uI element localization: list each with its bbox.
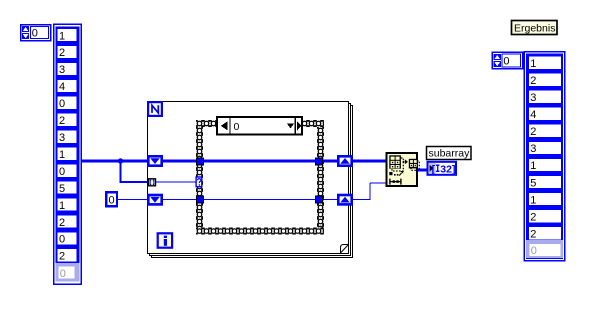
case tunnel lower left xyxy=(196,196,203,203)
wire: lower output to subset length input xyxy=(353,183,386,200)
svg-text:3: 3 xyxy=(59,64,65,76)
svg-text:4: 4 xyxy=(59,81,65,93)
wire: subset node to indicator (thick) xyxy=(418,169,427,172)
case tunnel upper left xyxy=(196,158,203,165)
wire: selector wire to case selector terminal xyxy=(156,181,196,183)
disabled (past end) last element of right array xyxy=(526,240,563,258)
arrow xyxy=(403,161,405,163)
wire: array to left shift register (thick array wire) xyxy=(81,160,147,163)
svg-text:2: 2 xyxy=(530,75,536,87)
big array glyph xyxy=(389,155,401,168)
wire: constant 0 to lower left shift register xyxy=(118,199,148,201)
svg-text:0: 0 xyxy=(32,28,38,40)
svg-text:0: 0 xyxy=(503,56,509,68)
dog-ear at loop bottom-right xyxy=(341,245,349,254)
svg-text:2: 2 xyxy=(59,115,65,127)
svg-text:0: 0 xyxy=(531,245,537,257)
svg-text:1: 1 xyxy=(59,30,65,42)
big array glyph shadow xyxy=(392,158,403,171)
svg-text:2: 2 xyxy=(530,126,536,138)
disabled (unfilled) last element of left array xyxy=(56,263,80,282)
svg-text:5: 5 xyxy=(530,177,536,189)
wire: thick array wire inside loop (right) xyxy=(323,160,337,163)
svg-text:0: 0 xyxy=(109,195,115,207)
length glyph xyxy=(389,179,391,185)
for loop frame (stacked) xyxy=(148,102,353,258)
wire: lower scalar wire inside loop (right) xyxy=(323,199,337,201)
shift register upper right (up arrow) xyxy=(337,155,353,167)
auto-index tunnel [] on loop border xyxy=(149,179,156,186)
case selector terminal ? xyxy=(196,177,202,187)
wire: thick array wire through case xyxy=(204,160,315,163)
svg-text:2: 2 xyxy=(59,47,65,59)
svg-text:1: 1 xyxy=(59,200,65,212)
case tunnel lower right xyxy=(315,196,322,203)
svg-text:2: 2 xyxy=(530,228,536,240)
shift register lower left (down arrow) xyxy=(147,194,163,206)
case tunnel upper right xyxy=(315,158,322,165)
svg-text:0: 0 xyxy=(59,98,65,110)
shift register lower right (up arrow) xyxy=(337,194,353,206)
wire: thick array wire inside loop (left) xyxy=(163,160,196,163)
case selector label xyxy=(217,117,302,135)
right array index control xyxy=(492,52,523,69)
svg-text:0: 0 xyxy=(59,166,65,178)
svg-text:0: 0 xyxy=(59,234,65,246)
wire: loop to array subset node (thick) xyxy=(353,160,386,163)
svg-text:2: 2 xyxy=(530,211,536,223)
svg-text:4: 4 xyxy=(530,109,536,121)
svg-text:subarray: subarray xyxy=(429,147,471,159)
small array glyph xyxy=(409,159,418,169)
wire: lower scalar wire through case xyxy=(204,199,315,201)
svg-text:Ergebnis: Ergebnis xyxy=(514,22,555,34)
wire: branch down to loop index tunnel xyxy=(120,161,149,182)
svg-text:1: 1 xyxy=(530,58,536,70)
svg-text:2: 2 xyxy=(59,217,65,229)
label Ergebnis xyxy=(512,21,558,35)
array constant (input values) xyxy=(54,24,81,284)
array indicator Ergebnis (output values) xyxy=(524,52,565,261)
case structure border xyxy=(196,120,324,235)
label subarray xyxy=(427,147,472,160)
loop count terminal N xyxy=(148,102,162,116)
svg-text:3: 3 xyxy=(530,143,536,155)
svg-text:1: 1 xyxy=(530,194,536,206)
loop iteration terminal i xyxy=(158,233,172,247)
svg-text:3: 3 xyxy=(530,92,536,104)
left array index control xyxy=(21,25,51,41)
svg-text:32]: 32] xyxy=(440,163,455,175)
svg-text:3: 3 xyxy=(59,132,65,144)
index glyph (square, dots, arrow) xyxy=(389,172,392,175)
svg-text:1: 1 xyxy=(59,149,65,161)
indicator terminal [I32] xyxy=(428,162,457,176)
numeric constant 0 xyxy=(106,192,117,206)
svg-text:2: 2 xyxy=(59,251,65,263)
array subset function node xyxy=(387,153,420,186)
svg-text:5: 5 xyxy=(59,183,65,195)
svg-text:0: 0 xyxy=(60,268,66,280)
wire junction xyxy=(118,158,123,163)
svg-text:0: 0 xyxy=(234,121,240,133)
svg-text:[: [ xyxy=(432,163,436,175)
shift register upper left (down arrow) xyxy=(147,155,163,167)
small array glyph shadow xyxy=(411,161,419,170)
svg-text:1: 1 xyxy=(530,160,536,172)
wire: lower scalar wire inside loop (left) xyxy=(163,199,196,201)
